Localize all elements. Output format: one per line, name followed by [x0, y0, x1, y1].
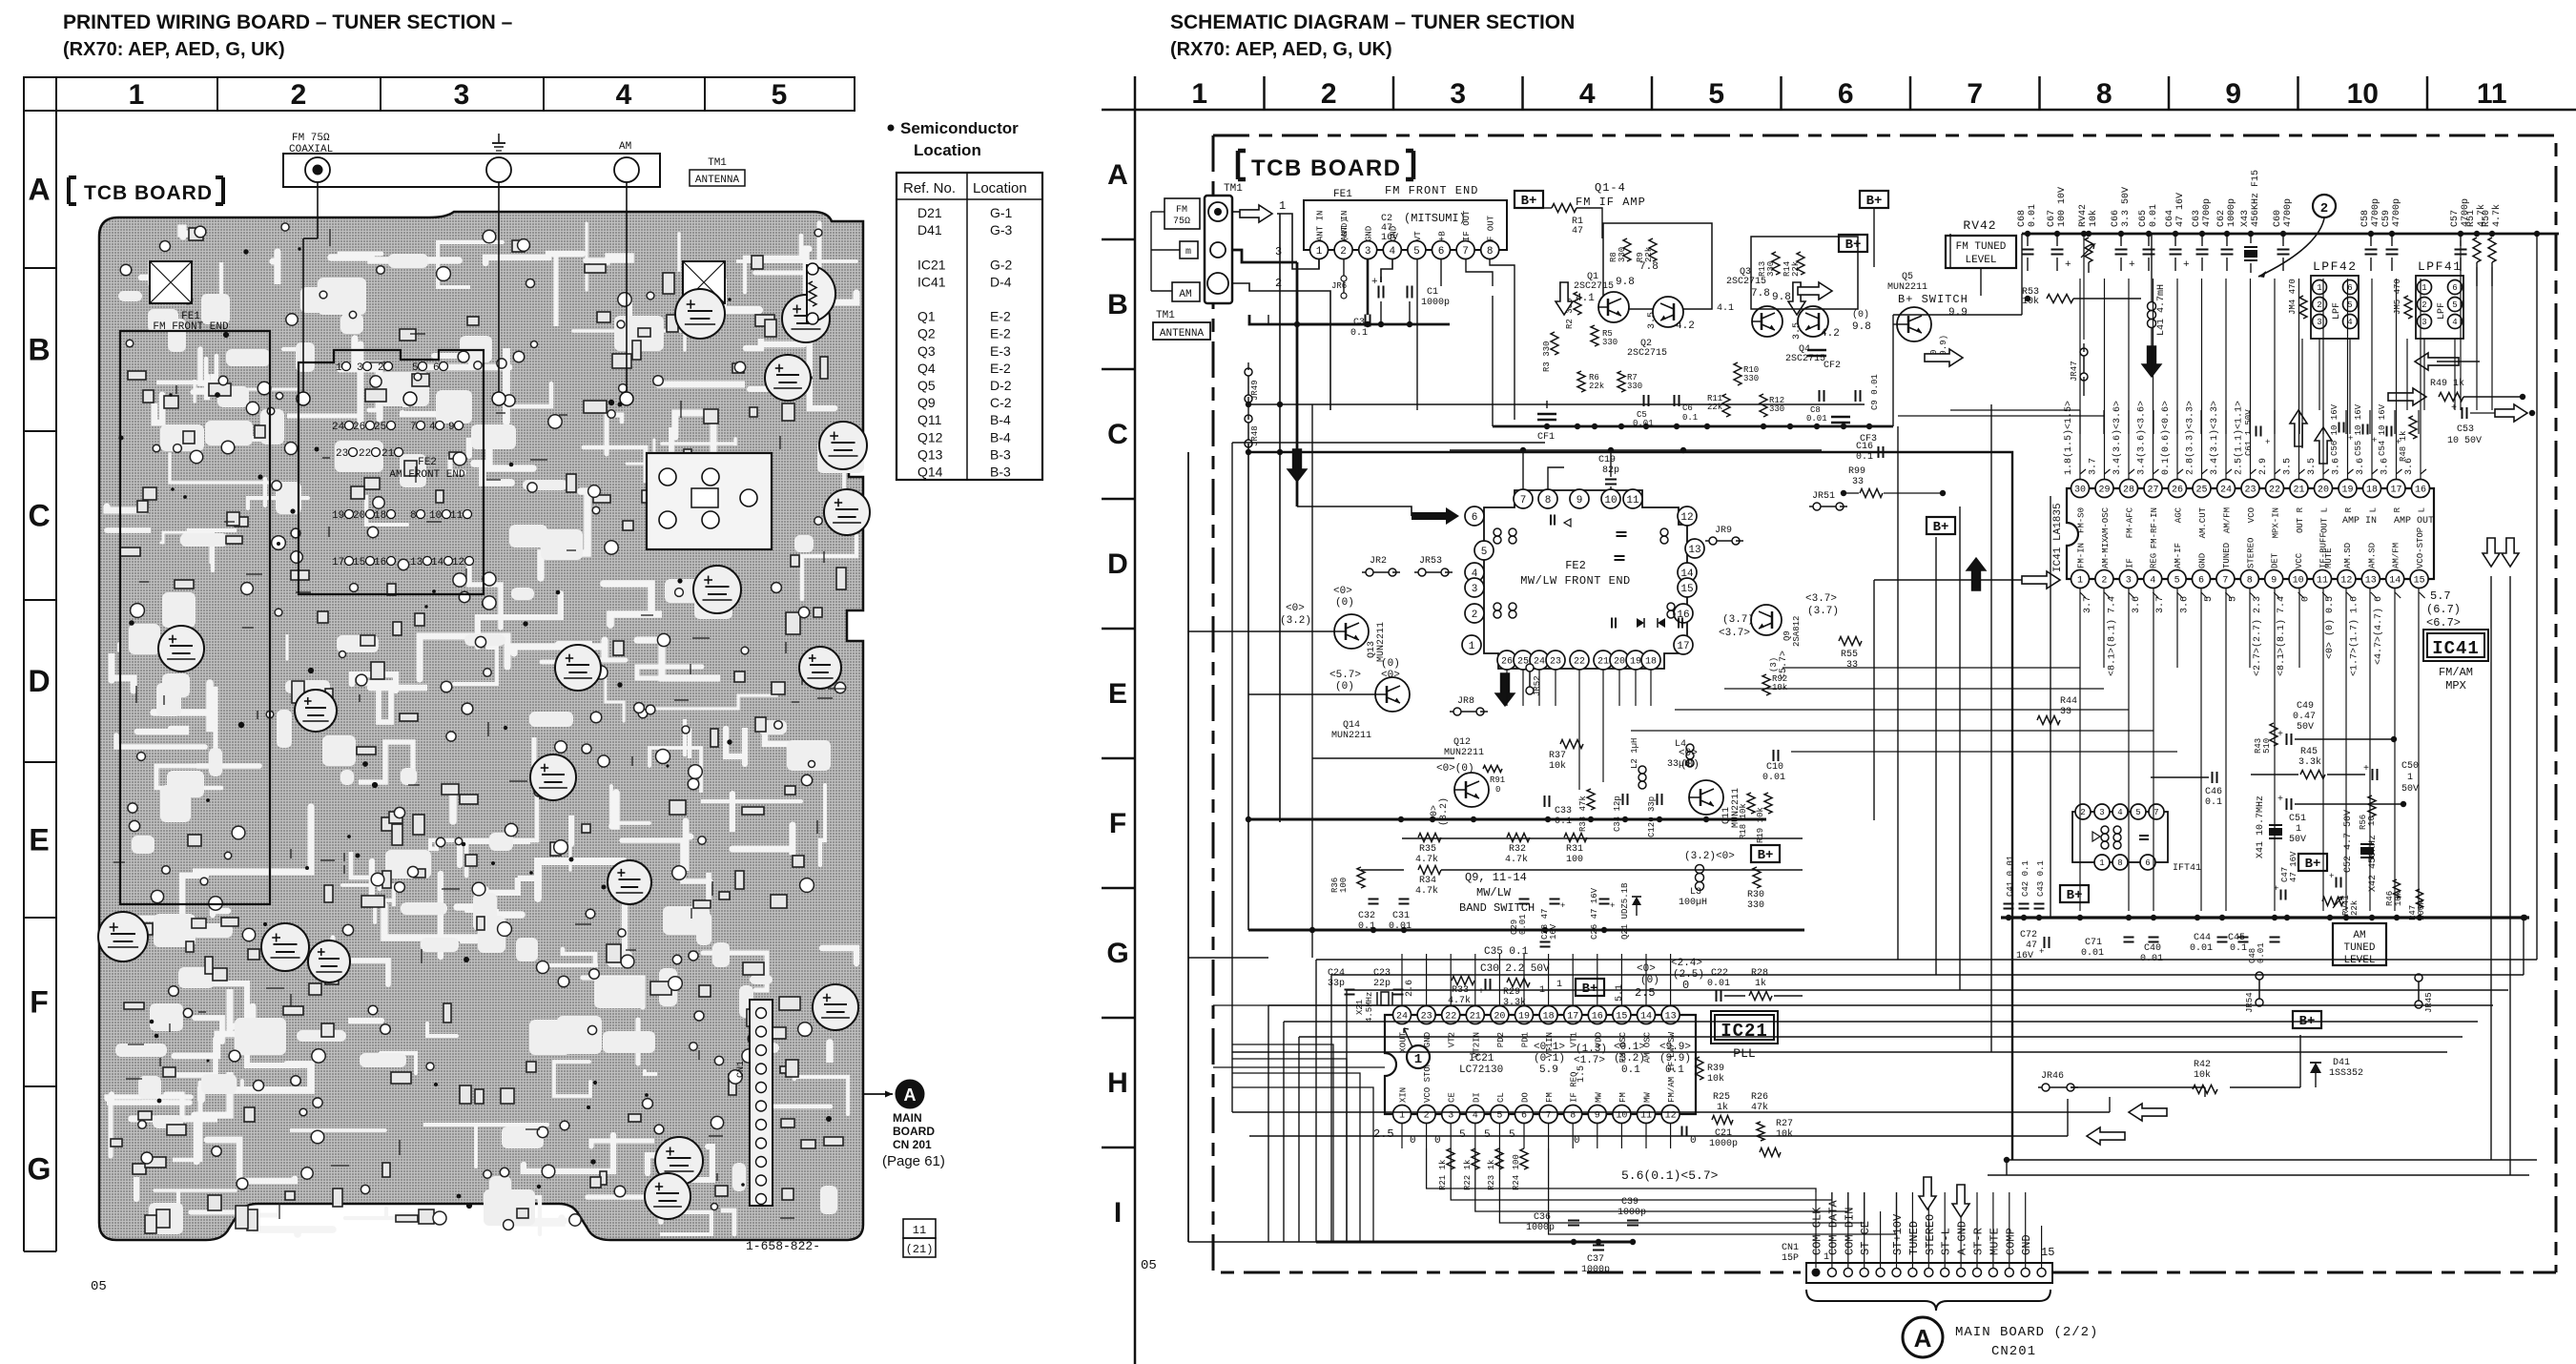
svg-text:B-3: B-3 [990, 446, 1011, 462]
hollow left arrows bottom [2129, 1104, 2167, 1121]
svg-text:8: 8 [1545, 495, 1552, 506]
svg-text:3.4(3.6)<3.6>: 3.4(3.6)<3.6> [2112, 401, 2123, 475]
PCB small components [111, 228, 846, 1233]
svg-text:LPF: LPF [2437, 302, 2447, 320]
svg-text:C23: C23 [1373, 968, 1391, 979]
svg-text:+: + [1478, 987, 1484, 998]
wires around Q5 [1893, 323, 1897, 325]
svg-text:3.6: 3.6 [2332, 458, 2342, 475]
svg-text:JR51: JR51 [1812, 491, 1835, 502]
jumper JR52 [1526, 664, 1534, 672]
svg-text:3.7: 3.7 [2155, 596, 2166, 613]
hollow up arrow 1 [2290, 410, 2307, 446]
svg-text:2SC2715: 2SC2715 [1574, 281, 1614, 292]
svg-text:COM DATA: COM DATA [1826, 1200, 1840, 1255]
svg-text:D21: D21 [917, 205, 942, 220]
svg-text:R37: R37 [1549, 751, 1566, 761]
transistor Q9 [1751, 605, 1782, 635]
jumper JR53 [1414, 571, 1422, 573]
svg-text:330: 330 [1747, 900, 1764, 911]
FE2 left pins [1465, 506, 1484, 526]
semiconductor location table [888, 125, 895, 132]
svg-text:11: 11 [913, 1224, 926, 1237]
svg-text:12: 12 [1680, 512, 1693, 524]
svg-text:3: 3 [2421, 318, 2426, 327]
svg-text:<0.1>: <0.1> [1614, 1042, 1645, 1053]
svg-text:B+ SWITCH: B+ SWITCH [1898, 293, 1968, 306]
svg-text:C35 0.1: C35 0.1 [1484, 946, 1529, 958]
svg-text:IC41: IC41 [917, 274, 946, 289]
svg-text:m: m [1185, 247, 1191, 258]
sheet reference box [903, 1219, 936, 1238]
svg-text:TUNED: TUNED [2343, 942, 2375, 954]
svg-text:0.1: 0.1 [2205, 797, 2222, 808]
svg-text:D41: D41 [917, 222, 942, 238]
svg-text:(21): (21) [906, 1243, 934, 1256]
svg-text:AM-IF: AM-IF [2174, 543, 2183, 568]
svg-text:VCO-STOP: VCO-STOP [2416, 527, 2425, 568]
svg-text:3: 3 [1472, 584, 1478, 595]
svg-text:Q1: Q1 [917, 309, 936, 324]
inductor L3 [1696, 865, 1704, 874]
main board CN201 callout [863, 1093, 893, 1095]
solid right arrow into pin6 [1412, 507, 1459, 525]
svg-text:AM-OSC: AM-OSC [2101, 506, 2111, 538]
svg-text:3.5: 3.5 [1647, 312, 1658, 329]
svg-text:Q2: Q2 [917, 326, 936, 341]
svg-text:FE2: FE2 [418, 457, 437, 468]
svg-text:4: 4 [2117, 808, 2122, 817]
svg-text:4700p: 4700p [2283, 198, 2294, 227]
svg-text:5.7: 5.7 [2430, 589, 2451, 603]
svg-text:Location: Location [914, 141, 981, 159]
IC21 top pins 24-13 [1393, 1006, 1412, 1024]
svg-text:<8.1>(8.1) 7.4: <8.1>(8.1) 7.4 [2106, 596, 2117, 676]
svg-text:L41 4.7mH: L41 4.7mH [2156, 284, 2167, 336]
svg-text:5: 5 [2452, 300, 2457, 310]
IC21 bottom drop wires [1401, 1124, 1403, 1148]
FE1 FM front end outline [120, 331, 270, 904]
svg-text:1000p: 1000p [1421, 298, 1450, 308]
svg-text:Q9, 11-14: Q9, 11-14 [1465, 871, 1527, 884]
svg-text:24: 24 [2220, 486, 2232, 496]
IC21 LC72130 body [1385, 1015, 1696, 1114]
IC41 label box [2423, 630, 2488, 661]
svg-text:2.5(1.1)<1.1>: 2.5(1.1)<1.1> [2234, 401, 2245, 475]
svg-text:0.01: 0.01 [2149, 204, 2159, 227]
svg-text:JR45: JR45 [2424, 992, 2434, 1013]
svg-text:JR2: JR2 [1370, 556, 1387, 567]
filter CF1 [1537, 413, 1556, 416]
svg-text:B+: B+ [1521, 194, 1537, 209]
svg-text:C41 0.01: C41 0.01 [2006, 856, 2015, 897]
svg-text:0.01: 0.01 [1806, 414, 1827, 424]
svg-text:25: 25 [2195, 486, 2207, 496]
svg-text:0: 0 [1690, 1135, 1697, 1147]
svg-text:2SA812: 2SA812 [1792, 616, 1802, 647]
svg-text:H: H [1107, 1067, 1128, 1099]
svg-text:7: 7 [410, 422, 417, 433]
FM IF bus wire [1493, 425, 1893, 428]
capacitor C46 [2212, 772, 2214, 783]
svg-text:AM-MIX: AM-MIX [2101, 537, 2111, 568]
svg-text:4.2: 4.2 [1821, 328, 1840, 340]
svg-text:R24 100: R24 100 [1512, 1154, 1521, 1190]
svg-text:C50: C50 [2401, 761, 2419, 772]
resistors R18 R19 [1747, 793, 1755, 814]
svg-text:15P: 15P [1782, 1253, 1799, 1264]
hollow arrow down CF2 [1788, 282, 1805, 315]
svg-text:1: 1 [2407, 773, 2413, 783]
svg-text:R18 10k: R18 10k [1739, 803, 1748, 839]
svg-text:C72: C72 [2020, 930, 2037, 940]
svg-text:10: 10 [429, 510, 442, 522]
svg-text:Q3: Q3 [917, 343, 936, 359]
svg-text:JR52: JR52 [1533, 675, 1542, 696]
svg-text:R49 1k: R49 1k [2430, 378, 2464, 389]
svg-text:10k: 10k [2022, 296, 2039, 307]
svg-text:F: F [1109, 808, 1126, 839]
svg-text:R: R [2393, 506, 2402, 512]
svg-text:22k: 22k [1791, 261, 1801, 277]
svg-text:Q14: Q14 [1343, 720, 1360, 731]
svg-text:3.7: 3.7 [2083, 596, 2093, 613]
svg-text:3: 3 [1365, 246, 1371, 258]
svg-text:AMP OUT: AMP OUT [2394, 516, 2434, 527]
svg-text:3.6: 3.6 [2356, 458, 2366, 475]
svg-text:TUNED: TUNED [1907, 1221, 1921, 1255]
FE1 pins 1-8 [1310, 241, 1329, 259]
svg-text:9.9: 9.9 [1948, 307, 1968, 319]
svg-text:F: F [30, 985, 49, 1020]
svg-text:1: 1 [129, 79, 145, 111]
svg-text:MUN2211: MUN2211 [1887, 282, 1927, 293]
IC41 left-bound routing wires [2079, 667, 2081, 669]
svg-text:4.7k: 4.7k [1415, 885, 1438, 897]
svg-text:LEVEL: LEVEL [2343, 955, 2375, 966]
svg-text:R45: R45 [2300, 747, 2318, 757]
svg-text:7.8: 7.8 [1751, 288, 1770, 300]
svg-text:IC21: IC21 [917, 257, 946, 272]
svg-text:(3.7): (3.7) [1807, 606, 1839, 617]
svg-text:0.1(0.6)<0.6>: 0.1(0.6)<0.6> [2160, 401, 2172, 475]
electrolytic capacitors on PCB [675, 289, 725, 339]
svg-text:330: 330 [1743, 374, 1759, 383]
svg-text:7.8: 7.8 [1639, 261, 1659, 273]
svg-text:C51: C51 [2289, 814, 2306, 824]
svg-text:+: + [2348, 434, 2353, 444]
svg-text:(3): (3) [1769, 657, 1779, 672]
svg-text:+: + [2265, 438, 2270, 447]
svg-text:E-3: E-3 [990, 343, 1011, 359]
svg-text:1: 1 [1414, 1052, 1422, 1067]
svg-text:Q14: Q14 [917, 465, 943, 480]
resistor R2 [1574, 292, 1581, 315]
svg-text:9.8: 9.8 [1616, 277, 1635, 288]
svg-text:3.6: 3.6 [2180, 596, 2191, 613]
svg-text:17: 17 [1567, 1012, 1578, 1023]
svg-text:C53: C53 [2457, 424, 2474, 435]
transistor Q4 [1798, 306, 1828, 337]
IC21 top riser wires [1401, 954, 1403, 1005]
svg-text:4.7k: 4.7k [1505, 854, 1528, 865]
FE2 internal parts [1494, 528, 1501, 536]
svg-text:BOARD: BOARD [893, 1125, 935, 1138]
svg-text:2: 2 [2101, 576, 2107, 587]
svg-text:E-2: E-2 [990, 326, 1011, 341]
svg-text:LEVEL: LEVEL [1965, 255, 1996, 266]
ground terminal [486, 157, 511, 182]
FM coaxial terminal [305, 157, 330, 182]
svg-text:100: 100 [1566, 855, 1583, 865]
svg-text:IC41: IC41 [2432, 638, 2480, 659]
svg-text:R99: R99 [1848, 466, 1865, 477]
svg-text:2: 2 [2080, 808, 2085, 817]
svg-text:<0>: <0> [1286, 603, 1305, 614]
svg-text:C65: C65 [2138, 210, 2149, 227]
solid arrow down [2142, 346, 2161, 377]
svg-text:A: A [904, 1085, 917, 1105]
svg-text:LPF41: LPF41 [2418, 259, 2463, 274]
PCB board body (TCB board) [99, 212, 863, 1240]
svg-text:27: 27 [2147, 486, 2158, 496]
svg-text:3: 3 [1275, 245, 1282, 258]
svg-text:FM: FM [1545, 1092, 1555, 1103]
svg-text:B-4: B-4 [990, 429, 1011, 444]
svg-text:10k: 10k [1707, 1073, 1724, 1085]
svg-text:29: 29 [2098, 486, 2110, 496]
svg-text:330: 330 [1602, 338, 1618, 347]
B+ box left [2060, 885, 2089, 902]
svg-text:FE2: FE2 [1565, 559, 1586, 572]
svg-text:AM FRONT END: AM FRONT END [389, 469, 465, 481]
solid arrow down left [1288, 449, 1307, 482]
svg-text:17: 17 [332, 557, 344, 568]
svg-text:R42: R42 [2194, 1060, 2211, 1070]
svg-text:X43: X43 [2240, 210, 2251, 227]
svg-text:9: 9 [2271, 576, 2277, 587]
svg-text:D-2: D-2 [990, 378, 1012, 393]
hollow down arrows right [2483, 538, 2500, 567]
svg-text:VT2: VT2 [1448, 1032, 1457, 1047]
svg-text:MPX-IN: MPX-IN [2272, 507, 2281, 538]
verticals from lower rails up [1315, 960, 1317, 1242]
svg-text:3: 3 [2126, 576, 2132, 587]
svg-text:(3.2)<0>: (3.2)<0> [1684, 851, 1735, 862]
svg-text:6: 6 [2452, 283, 2457, 293]
circled 1 [1407, 1045, 1430, 1068]
svg-text:C9 0.01: C9 0.01 [1870, 374, 1880, 410]
svg-text:47: 47 [1572, 226, 1583, 237]
svg-text:FM: FM [1176, 205, 1187, 216]
svg-text:B+: B+ [2305, 857, 2321, 872]
svg-text:Q11: Q11 [917, 412, 942, 427]
trimmer RV41 [807, 265, 835, 322]
band switch rail y912 [1361, 869, 1404, 871]
svg-text:B+: B+ [1582, 982, 1598, 997]
IFT41 outline [647, 453, 772, 549]
svg-text:6: 6 [2198, 576, 2204, 587]
svg-text:28: 28 [2123, 486, 2134, 496]
resistor R1 [1552, 204, 1577, 213]
arrow into IC41 pin 1 [2022, 571, 2060, 589]
svg-text:5: 5 [772, 79, 788, 111]
svg-text:0.1: 0.1 [2230, 943, 2247, 954]
svg-text:26: 26 [2172, 486, 2183, 496]
svg-text:C3: C3 [1353, 318, 1365, 328]
svg-text:A: A [28, 173, 50, 207]
svg-text:0.01: 0.01 [2257, 942, 2266, 963]
svg-text:R: R [2344, 506, 2354, 512]
svg-text:I: I [1114, 1197, 1122, 1229]
svg-text:10k: 10k [1776, 1128, 1793, 1140]
svg-text:21: 21 [1597, 657, 1609, 668]
svg-text:(0): (0) [1852, 309, 1869, 320]
svg-text:Q1-4: Q1-4 [1595, 181, 1626, 195]
svg-text:1: 1 [336, 362, 342, 374]
svg-text:3: 3 [454, 79, 470, 111]
svg-text:VT: VT [1413, 231, 1423, 241]
svg-text:Q4: Q4 [917, 361, 936, 376]
capacitor C32 [1369, 899, 1379, 900]
svg-text:REG: REG [2150, 553, 2159, 568]
svg-text:17: 17 [2390, 486, 2401, 496]
svg-text:7: 7 [2154, 808, 2158, 817]
svg-text:26: 26 [353, 422, 365, 433]
svg-text:DET: DET [2271, 552, 2280, 568]
svg-text:MUN2211: MUN2211 [1331, 731, 1371, 741]
svg-text:C57: C57 [2450, 210, 2461, 227]
B+ box 3 [1839, 235, 1867, 252]
svg-text:MW: MW [1594, 1092, 1603, 1103]
svg-text:0.01: 0.01 [1518, 914, 1528, 935]
svg-text:AM: AM [619, 141, 631, 153]
svg-text:ST CE: ST CE [1859, 1221, 1872, 1255]
svg-text:PRINTED WIRING BOARD – TUNER: PRINTED WIRING BOARD – TUNER SECTION – [63, 11, 513, 33]
TCB BOARD heading [69, 177, 76, 204]
svg-text:C66: C66 [2111, 210, 2121, 227]
svg-text:FM-IN: FM-IN [2077, 543, 2087, 568]
resistor R34 [1418, 866, 1441, 875]
svg-text:14: 14 [1640, 1012, 1652, 1023]
svg-text:50V: 50V [2297, 722, 2314, 733]
svg-text:0: 0 [1434, 1135, 1441, 1147]
resistor R12 [1760, 394, 1767, 417]
AM terminal [614, 157, 639, 182]
circled 2 annotation [2313, 195, 2336, 217]
svg-text:LPF: LPF [2332, 302, 2342, 320]
ground bus wire [2001, 916, 2529, 919]
svg-text:COM DIN: COM DIN [1843, 1208, 1856, 1255]
svg-text:10: 10 [2293, 576, 2304, 587]
svg-text:75Ω: 75Ω [1173, 217, 1190, 227]
svg-text:3.4(3.1)<3.3>: 3.4(3.1)<3.3> [2209, 401, 2220, 475]
svg-text:11: 11 [2477, 78, 2507, 110]
svg-text:R29: R29 [1503, 987, 1520, 998]
svg-text:10 50V: 10 50V [2447, 436, 2482, 446]
transistor Q13 [1334, 614, 1369, 649]
capacitor C1 [1407, 286, 1409, 299]
svg-text:R30: R30 [1747, 890, 1764, 900]
svg-text:MUTE: MUTE [1988, 1228, 2001, 1255]
svg-text:XIN: XIN [1399, 1087, 1409, 1103]
svg-text:Semiconductor: Semiconductor [900, 119, 1019, 137]
svg-text:COAXIAL: COAXIAL [289, 144, 333, 155]
svg-text:24: 24 [332, 422, 345, 433]
svg-text:4: 4 [1389, 246, 1395, 258]
svg-text:SCHEMATIC DIAGRAM – TUNER SE: SCHEMATIC DIAGRAM – TUNER SECTION [1170, 11, 1575, 33]
transistor Q2 [1653, 297, 1683, 327]
svg-text:TCB BOARD: TCB BOARD [1251, 155, 1402, 181]
B+ right of FE2 [1927, 517, 1955, 534]
resistors R21 R22 R23 R24 [1447, 1148, 1454, 1169]
svg-text:MPX: MPX [2445, 679, 2466, 692]
svg-text:10: 10 [2367, 816, 2377, 826]
capacitor C26 [1599, 899, 1610, 900]
svg-text:2: 2 [1340, 246, 1347, 258]
wire row y474 [1248, 451, 1841, 454]
svg-text:IC21: IC21 [1469, 1053, 1494, 1064]
svg-text:9: 9 [2225, 78, 2241, 110]
svg-text:19: 19 [2341, 486, 2353, 496]
svg-text:AM/FM: AM/FM [2392, 543, 2401, 568]
svg-text:D: D [1107, 548, 1128, 580]
CN1 connector strip on PCB [750, 1000, 773, 1206]
svg-text:18: 18 [374, 510, 386, 522]
svg-text:B+: B+ [1758, 848, 1774, 863]
svg-text:15: 15 [353, 557, 365, 568]
svg-text:JR54: JR54 [2245, 992, 2255, 1013]
svg-text:C19: C19 [1598, 455, 1616, 465]
svg-text:STEREO: STEREO [2246, 538, 2256, 568]
svg-text:L3: L3 [1690, 887, 1701, 898]
svg-text:19: 19 [1630, 657, 1641, 668]
svg-text:C63: C63 [2192, 210, 2202, 227]
svg-text:<0>: <0> [1381, 670, 1400, 681]
vertical bus x1342 [1279, 214, 1281, 822]
svg-text:MAIN BOARD (2/2): MAIN BOARD (2/2) [1955, 1325, 2098, 1340]
capacitor C34 [1622, 794, 1624, 805]
svg-text:330: 330 [1627, 382, 1642, 391]
bus y975 [1248, 929, 1804, 932]
svg-text:15: 15 [1680, 584, 1693, 595]
capacitor C50 [2372, 769, 2374, 780]
hollow arrow right to IC41 [1925, 349, 1963, 366]
svg-text:+B: +B [1438, 231, 1448, 241]
svg-text:F OUT: F OUT [1487, 215, 1496, 241]
svg-text:G: G [1106, 938, 1128, 969]
svg-text:4: 4 [616, 79, 632, 111]
svg-text:JR46: JR46 [2041, 1071, 2064, 1082]
svg-text:FM TUNED: FM TUNED [1956, 241, 2007, 253]
svg-text:C40: C40 [2144, 943, 2161, 954]
svg-text:E-2: E-2 [990, 309, 1011, 324]
svg-text:1: 1 [2296, 824, 2301, 835]
svg-text:26: 26 [1501, 657, 1513, 668]
svg-text:+: + [2039, 947, 2044, 957]
svg-text:4: 4 [2452, 318, 2457, 327]
svg-text:IC21: IC21 [1721, 1021, 1768, 1042]
svg-text:0.01: 0.01 [2081, 948, 2104, 959]
svg-text:8: 8 [410, 510, 417, 522]
svg-text:(GND): (GND) [1341, 218, 1350, 241]
svg-text:15: 15 [2414, 576, 2425, 587]
svg-text:10k: 10k [2194, 1069, 2211, 1081]
svg-text:22k: 22k [1589, 382, 1604, 391]
svg-text:TUNED: TUNED [2222, 543, 2232, 568]
svg-text:12: 12 [2340, 576, 2352, 587]
svg-text:3: 3 [2099, 808, 2104, 817]
